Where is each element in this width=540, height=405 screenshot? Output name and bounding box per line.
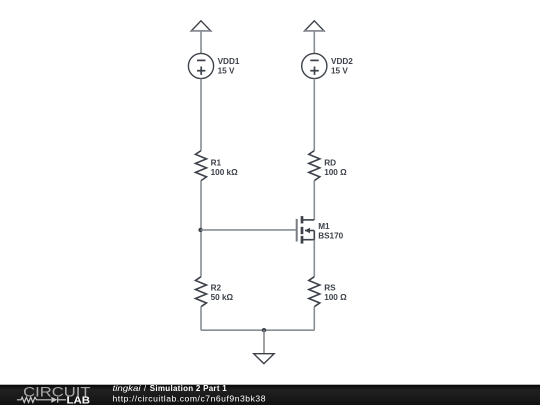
drain lead bbox=[302, 219, 314, 221]
svg-text:Simulation 2 Part 1: Simulation 2 Part 1 bbox=[150, 384, 227, 393]
label R2 50 kΩ bbox=[211, 284, 234, 302]
voltage source VDD2 bbox=[302, 53, 327, 78]
svg-text:BS170: BS170 bbox=[318, 232, 343, 241]
wire: M1 source to RS bbox=[313, 240, 315, 277]
wire: gate node to M1 gate bbox=[201, 229, 297, 231]
svg-text:M1: M1 bbox=[318, 222, 330, 231]
svg-text:100 Ω: 100 Ω bbox=[324, 168, 347, 177]
svg-text:LAB: LAB bbox=[67, 396, 91, 405]
svg-text:R2: R2 bbox=[211, 284, 222, 293]
label VDD1 15 V bbox=[218, 57, 240, 75]
svg-text:15 V: 15 V bbox=[218, 66, 235, 75]
svg-text:RS: RS bbox=[324, 284, 336, 293]
node: gate node junction dot bbox=[198, 228, 202, 232]
wire: ground stem bbox=[263, 330, 265, 353]
svg-text:RD: RD bbox=[324, 159, 336, 168]
label RS 100 Ω bbox=[324, 284, 347, 302]
label RD 100 Ω bbox=[324, 159, 347, 177]
wire: VDD2 source to RD bbox=[313, 79, 315, 151]
resistor RS bbox=[309, 277, 320, 307]
wire: bottom rail bbox=[201, 329, 314, 331]
svg-text:VDD1: VDD1 bbox=[218, 57, 240, 66]
wire: VDD1 source to R1 bbox=[200, 79, 202, 151]
body lead with arrow bbox=[305, 230, 314, 232]
power flag VDD2 (net arrow, right branch top) bbox=[305, 21, 324, 31]
CircuitLab logo: diode bar and wire to LAB bbox=[58, 397, 66, 403]
svg-text:100 kΩ: 100 kΩ bbox=[211, 168, 238, 177]
power flag VDD1 (net arrow, left branch top) bbox=[191, 21, 210, 31]
label R1 100 kΩ bbox=[211, 159, 238, 177]
channel bar top bbox=[301, 216, 304, 223]
channel bar middle bbox=[301, 227, 304, 234]
resistor R1 bbox=[196, 151, 207, 181]
svg-text:15 V: 15 V bbox=[331, 66, 348, 75]
svg-text:http://circuitlab.com/c7n6uf9n: http://circuitlab.com/c7n6uf9n3bk38 bbox=[113, 394, 266, 404]
resistor RD bbox=[309, 151, 320, 181]
channel bar bottom bbox=[301, 236, 304, 244]
wire: VDD2 flag to VDD2 source bbox=[313, 31, 315, 54]
source lead bbox=[302, 231, 314, 240]
CircuitLab logo: diode triangle bbox=[51, 397, 57, 403]
svg-text:R1: R1 bbox=[211, 159, 222, 168]
wire: VDD1 flag to VDD1 source bbox=[200, 31, 202, 54]
svg-text:50 kΩ: 50 kΩ bbox=[211, 293, 234, 302]
svg-text:VDD2: VDD2 bbox=[331, 57, 353, 66]
gate bar bbox=[296, 219, 298, 242]
CircuitLab logo: resistor zigzag bbox=[17, 397, 51, 402]
voltage source VDD1 bbox=[188, 53, 213, 78]
wire: R2 to bottom rail bbox=[200, 307, 202, 331]
node: ground junction dot bbox=[262, 328, 266, 332]
resistor R2 bbox=[196, 277, 207, 307]
footer bar bbox=[0, 385, 540, 405]
label VDD2 15 V bbox=[331, 57, 353, 75]
ground bbox=[254, 354, 274, 364]
svg-text:tingkai: tingkai bbox=[113, 384, 141, 393]
transistor M1 (NMOS BS170) bbox=[297, 216, 315, 244]
wire: RS to bottom rail bbox=[313, 307, 315, 331]
label M1 BS170 bbox=[318, 222, 343, 240]
svg-text:100 Ω: 100 Ω bbox=[324, 293, 347, 302]
wire: RD to M1 drain bbox=[313, 181, 315, 220]
wire: R1 to R2 (left branch, through gate node) bbox=[200, 181, 202, 277]
